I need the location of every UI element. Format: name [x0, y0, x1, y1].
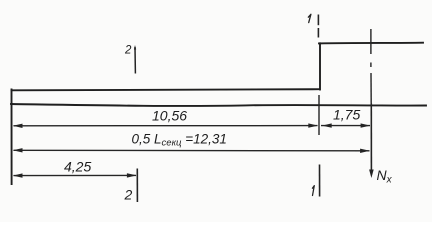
svg-text:2: 2 [124, 45, 132, 57]
svg-text:Nx: Nx [377, 167, 393, 186]
svg-text:10,56: 10,56 [152, 108, 187, 124]
svg-text:1,75: 1,75 [333, 107, 360, 123]
svg-text:2: 2 [124, 187, 133, 203]
svg-text:0,5 Lсекц =12,31: 0,5 Lсекц =12,31 [132, 132, 227, 149]
svg-text:4,25: 4,25 [64, 159, 91, 175]
